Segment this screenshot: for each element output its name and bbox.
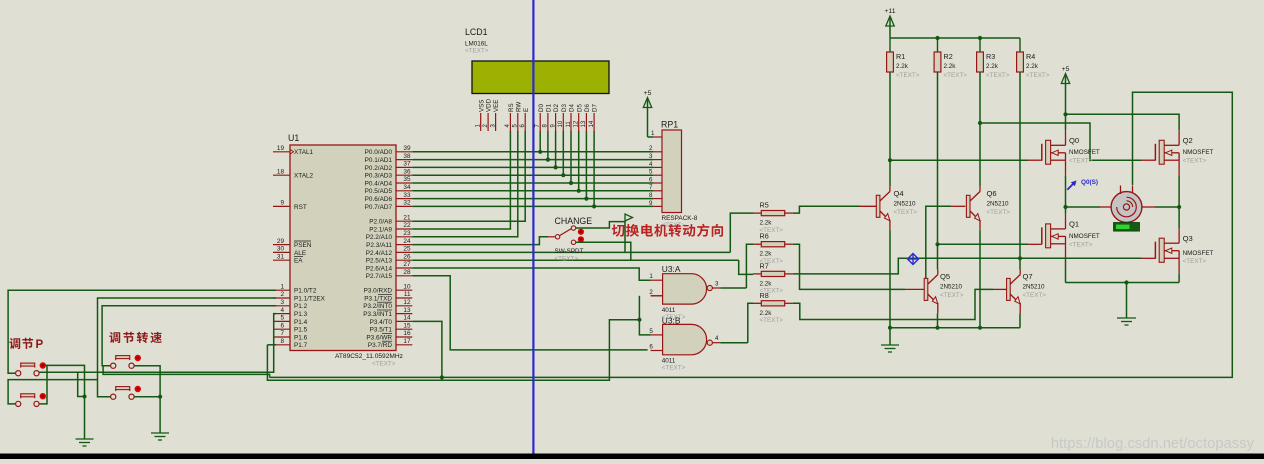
svg-text:<TEXT>: <TEXT> xyxy=(555,255,579,262)
junction D3/P0.3 xyxy=(561,173,565,177)
U1 pin 38 P0.1/AD1 xyxy=(365,153,413,164)
svg-text:P0.3/AD3: P0.3/AD3 xyxy=(365,173,393,180)
wire switch bottom throw to P2.5 net xyxy=(576,242,631,260)
rp1 pin 9 stub xyxy=(649,200,662,207)
junction D7/P0.7 xyxy=(592,204,596,208)
lcd pin 2 VDD xyxy=(483,98,493,131)
U1 pin 25 P2.4/A12 xyxy=(366,246,413,257)
svg-text:8: 8 xyxy=(280,338,284,345)
rp1 pin 1 stub xyxy=(651,130,662,137)
svg-text:30: 30 xyxy=(277,246,285,253)
wire P0.7 bus line to RP1 pin 9 xyxy=(412,205,653,207)
wire U3:B output to R8 left xyxy=(748,303,753,342)
svg-text:NMOSFET: NMOSFET xyxy=(1183,250,1214,257)
svg-text:ALE: ALE xyxy=(294,250,306,257)
U1 pin 1 P1.0/T2 xyxy=(273,283,317,294)
svg-text:SW-SPDT: SW-SPDT xyxy=(555,248,584,255)
svg-text:NMOSFET: NMOSFET xyxy=(1183,149,1214,156)
wire P1.7 stub link xyxy=(267,344,276,346)
U1 pin 8 P1.7 xyxy=(273,338,308,349)
svg-text:2.2k: 2.2k xyxy=(760,251,773,258)
wire motor right terminal xyxy=(1142,206,1155,208)
lcd pin 9 D2 xyxy=(550,104,560,131)
rp1 pin 2 stub xyxy=(649,145,662,152)
svg-text:Q0: Q0 xyxy=(1069,136,1079,145)
lcd pin 1 VSS xyxy=(476,100,486,131)
svg-text:P1.5: P1.5 xyxy=(294,327,308,334)
push button SW3 xyxy=(111,355,141,369)
lcd pin 4 RS xyxy=(505,103,515,131)
wire P1.2 riser to button3 left xyxy=(102,306,276,366)
svg-text:Q7: Q7 xyxy=(1023,272,1033,281)
svg-text:1: 1 xyxy=(649,273,653,280)
svg-text:<TEXT>: <TEXT> xyxy=(372,361,396,368)
label adjust-P button group xyxy=(9,338,33,349)
wire P1.1 riser to button4 left xyxy=(98,298,277,397)
svg-text:<TEXT>: <TEXT> xyxy=(1183,258,1207,265)
wire +11 rail to R1-R4 tops xyxy=(890,37,1020,39)
svg-text:1: 1 xyxy=(651,130,655,137)
svg-text:31: 31 xyxy=(277,253,285,260)
svg-text:34: 34 xyxy=(403,184,411,191)
svg-text:P0.0/AD0: P0.0/AD0 xyxy=(365,149,393,156)
svg-text:2N5210: 2N5210 xyxy=(987,200,1010,207)
svg-text:6: 6 xyxy=(280,322,284,329)
transistor Q7 2N5210 xyxy=(1007,269,1047,313)
U1 pin 7 P1.6 xyxy=(273,330,308,341)
svg-text:<TEXT>: <TEXT> xyxy=(1023,292,1047,299)
wire Q5 emitter to ground rail xyxy=(937,313,939,327)
svg-text:P: P xyxy=(36,339,44,351)
wire Q3 source to lower rail xyxy=(1178,274,1180,283)
svg-text:P3.0/RXD: P3.0/RXD xyxy=(364,288,393,295)
junction R1/Q4/Q0-gate xyxy=(888,158,892,162)
wire button4 right contact xyxy=(134,396,160,398)
switch CHANGE SW-SPDT xyxy=(555,216,593,262)
svg-text:RST: RST xyxy=(294,204,307,211)
wire R2 bottom to node xyxy=(937,72,939,269)
svg-text:VSS: VSS xyxy=(478,100,485,112)
svg-text:P1.6: P1.6 xyxy=(294,334,308,341)
svg-text:R2: R2 xyxy=(944,52,953,61)
svg-text:R1: R1 xyxy=(896,52,905,61)
wire switch top throw to P2.4 net xyxy=(576,222,625,253)
svg-text:R4: R4 xyxy=(1026,52,1035,61)
svg-text:13: 13 xyxy=(403,307,411,314)
svg-text:P2.0/A8: P2.0/A8 xyxy=(369,219,392,226)
wire motor feedback tap to P1.2 riser xyxy=(103,366,270,378)
power +11 symbol xyxy=(884,8,895,38)
svg-text:4: 4 xyxy=(280,307,284,314)
ground symbol under driver stage xyxy=(881,328,899,352)
wire button1 right return to ground node xyxy=(78,372,85,396)
wire LCD RS column to P2.1 xyxy=(412,131,510,229)
push button SW2 xyxy=(16,393,46,407)
transistor Q4 2N5210 xyxy=(876,186,917,230)
resistor R2 2.2k xyxy=(934,38,967,79)
svg-text:2N5210: 2N5210 xyxy=(894,200,917,207)
svg-text:9: 9 xyxy=(649,200,653,207)
wire Q1 gate drive xyxy=(938,243,1029,245)
svg-text:D4: D4 xyxy=(569,104,576,112)
wire R1 bottom to Q4 collector / Q0 gate node xyxy=(889,72,891,186)
wire R4 bottom to Q7 collector / Q3 gate node xyxy=(1019,72,1021,269)
wire LCD D3 column to P0.3 bus xyxy=(562,131,564,175)
wire Q6 base stub xyxy=(951,205,965,207)
svg-text:LM016L: LM016L xyxy=(465,41,488,48)
svg-text:4011: 4011 xyxy=(662,358,676,365)
U1 pin 9 RST xyxy=(273,200,307,211)
svg-text:24: 24 xyxy=(403,238,411,245)
U1 pin 27 P2.6/A14 xyxy=(366,261,413,272)
svg-text:D5: D5 xyxy=(576,104,583,112)
wire left bridge rail Q0 source to Q1 drain xyxy=(1065,176,1067,214)
wire P0.0 bus line to RP1 pin 2 xyxy=(412,151,653,153)
lcd pin 8 D1 xyxy=(543,104,553,131)
U1 pin 29 PSEN xyxy=(273,238,312,249)
svg-text:12: 12 xyxy=(574,120,580,127)
wire Q0 gate drive xyxy=(890,159,1028,161)
svg-text:NMOSFET: NMOSFET xyxy=(1069,149,1100,156)
svg-text:R8: R8 xyxy=(760,291,769,300)
U1 pin 21 P2.0/A8 xyxy=(369,214,412,225)
svg-text:39: 39 xyxy=(403,145,411,152)
junction D4/P0.4 xyxy=(569,181,573,185)
bottom window bar xyxy=(0,454,1264,460)
svg-text:6: 6 xyxy=(649,176,653,183)
junction right rail / motor right xyxy=(1177,205,1181,209)
wire P1.7 to U3 inputs 2 and 5 xyxy=(267,320,639,381)
svg-text:4: 4 xyxy=(649,161,653,168)
blue origin marker xyxy=(908,254,919,265)
wire R5 right to Q4 base xyxy=(793,206,860,213)
wire button1 knob to ground riser xyxy=(46,365,85,439)
svg-text:<TEXT>: <TEXT> xyxy=(986,72,1010,79)
svg-text:<TEXT>: <TEXT> xyxy=(760,317,784,324)
svg-text:D3: D3 xyxy=(561,104,568,112)
wire right bridge rail Q2 source to Q3 drain xyxy=(1178,176,1180,228)
mcu U1 AT89C52 body xyxy=(288,133,403,368)
wire Q7 base stub xyxy=(993,288,1007,290)
wire button3 right to ground riser xyxy=(134,366,160,433)
U1 pin 37 P0.2/AD2 xyxy=(365,161,413,172)
svg-text:RW: RW xyxy=(515,102,522,112)
svg-text:<TEXT>: <TEXT> xyxy=(1183,158,1207,165)
svg-text:P0.2/AD2: P0.2/AD2 xyxy=(365,165,393,172)
svg-text:Q6: Q6 xyxy=(987,189,997,198)
svg-text:2.2k: 2.2k xyxy=(760,310,773,317)
svg-text:LCD1: LCD1 xyxy=(465,27,488,37)
resistor R3 2.2k xyxy=(977,38,1010,79)
resistor R8 2.2k xyxy=(753,291,793,324)
ground symbol under motor bridge xyxy=(1117,283,1136,326)
svg-text:<TEXT>: <TEXT> xyxy=(1069,242,1093,249)
svg-text:<TEXT>: <TEXT> xyxy=(465,48,489,55)
svg-text:+11: +11 xyxy=(884,8,895,15)
svg-text:P2.6/A14: P2.6/A14 xyxy=(366,265,393,272)
svg-text:P1.1/T2EX: P1.1/T2EX xyxy=(294,295,326,302)
U1 pin 11 P3.1/TXD xyxy=(364,291,412,302)
svg-text:2.2k: 2.2k xyxy=(986,63,999,70)
U1 pin 5 P1.4 xyxy=(273,315,308,326)
svg-text:14: 14 xyxy=(589,120,595,127)
svg-text:CHANGE: CHANGE xyxy=(555,216,593,226)
svg-text:Q1: Q1 xyxy=(1069,220,1079,229)
svg-text:2: 2 xyxy=(649,289,653,296)
junction +11 rail / R2 xyxy=(935,36,939,40)
svg-text:R3: R3 xyxy=(986,52,995,61)
U1 pin 35 P0.4/AD4 xyxy=(365,176,413,187)
wire P2.7 to U3:B input 6 xyxy=(412,276,647,350)
svg-text:XTAL1: XTAL1 xyxy=(294,149,314,156)
U1 pin 10 P3.0/RXD xyxy=(364,283,413,294)
svg-text:P1.3: P1.3 xyxy=(294,311,308,318)
svg-text:17: 17 xyxy=(403,338,411,345)
lcd pin 13 D6 xyxy=(581,104,591,131)
svg-text:25: 25 xyxy=(403,246,411,253)
svg-text:P3.7/RD: P3.7/RD xyxy=(368,342,393,349)
svg-text:P3.4/T0: P3.4/T0 xyxy=(370,319,393,326)
U1 pin 19 XTAL1 xyxy=(273,145,314,156)
svg-text:VEE: VEE xyxy=(493,100,500,112)
svg-text:P0.5/AD5: P0.5/AD5 xyxy=(365,188,393,195)
wire R6 right to Q5 base xyxy=(793,244,905,289)
svg-text:2.2k: 2.2k xyxy=(1026,63,1039,70)
svg-text:13: 13 xyxy=(581,120,587,127)
wire Q7 emitter to ground rail corner xyxy=(1019,313,1021,327)
rp1 pin 6 stub xyxy=(649,176,662,183)
svg-text:P0.7/AD7: P0.7/AD7 xyxy=(365,204,393,211)
rp1 pin 8 stub xyxy=(649,192,662,199)
svg-text:PSEN: PSEN xyxy=(294,242,312,249)
svg-text:3: 3 xyxy=(715,281,719,288)
wire Q1 source to lower rail xyxy=(1065,259,1067,282)
lcd pin 10 D3 xyxy=(558,104,568,131)
wire P0.5 bus line to RP1 pin 7 xyxy=(412,190,653,192)
svg-text:2N5210: 2N5210 xyxy=(940,283,963,290)
svg-text:6: 6 xyxy=(649,344,653,351)
wire P0.3 bus line to RP1 pin 5 xyxy=(412,174,653,176)
svg-text:32: 32 xyxy=(403,200,411,207)
svg-text:5: 5 xyxy=(280,315,284,322)
junction +5 rail / Q0 drain xyxy=(1063,112,1067,116)
svg-text:3: 3 xyxy=(649,153,653,160)
wire LCD D1 column to P0.1 bus xyxy=(547,131,549,160)
svg-text:D0: D0 xyxy=(538,104,545,112)
svg-text:14: 14 xyxy=(403,315,411,322)
svg-text:P2.7/A15: P2.7/A15 xyxy=(366,273,393,280)
resistor R5 2.2k xyxy=(753,201,793,234)
power +5 symbol right xyxy=(1061,66,1069,114)
wire Q6 base from Q5 base tie xyxy=(926,206,951,278)
lcd pin 3 VEE xyxy=(490,100,500,131)
wire U3:A output to R6 left xyxy=(746,244,753,288)
svg-text:23: 23 xyxy=(403,230,411,237)
transistor Q6 2N5210 xyxy=(966,186,1010,230)
wire button2 left loop to P1.1 riser xyxy=(8,380,97,404)
wire P1.3 bracket to button net xyxy=(39,314,276,373)
svg-text:P0.4/AD4: P0.4/AD4 xyxy=(365,180,393,187)
rp1 pin 3 stub xyxy=(649,153,662,160)
transistor Q5 2N5210 xyxy=(924,269,964,313)
U1 pin 4 P1.3 xyxy=(273,307,308,318)
junction D2/P0.2 xyxy=(554,165,558,169)
svg-text:2: 2 xyxy=(280,291,284,298)
wire Q5 base stub xyxy=(905,288,924,290)
wire P3.4/T0 riser to feedback line xyxy=(412,321,442,377)
wire motor tach feedback loop to P3.4/T0 xyxy=(270,92,1233,377)
U1 pin 26 P2.5/A13 xyxy=(366,253,413,264)
svg-text:AT89C52_11.0592MHz: AT89C52_11.0592MHz xyxy=(335,353,403,360)
transistor Q2 NMOSFET xyxy=(1155,130,1213,176)
svg-text:<TEXT>: <TEXT> xyxy=(894,209,918,216)
wire P0.6 bus line to RP1 pin 8 xyxy=(412,198,653,200)
wire Q6 emitter to ground rail xyxy=(979,230,981,327)
terminal flag marker xyxy=(625,214,633,221)
svg-text:U3:A: U3:A xyxy=(662,264,681,274)
U1 pin 28 P2.7/A15 xyxy=(366,269,413,280)
svg-text:+5: +5 xyxy=(1062,66,1070,73)
svg-text:Q5: Q5 xyxy=(940,272,950,281)
U1 pin 3 P1.2 xyxy=(273,299,308,310)
svg-text:https://blog.csdn.net/octopass: https://blog.csdn.net/octopassy xyxy=(1051,436,1255,452)
svg-text:RS: RS xyxy=(508,103,515,112)
blue voltage probe Q0(S) xyxy=(1067,179,1098,190)
U1 pin 39 P0.0/AD0 xyxy=(365,145,413,156)
svg-text:7: 7 xyxy=(649,184,653,191)
nand gate U3:A 4011 xyxy=(649,264,720,321)
wire button2 right contact up to knob net xyxy=(39,365,47,404)
svg-text:P1.2: P1.2 xyxy=(294,303,308,310)
wire U3:A output to R6 riser xyxy=(720,287,746,289)
svg-text:R5: R5 xyxy=(760,201,769,210)
svg-text:22: 22 xyxy=(403,222,411,229)
junction rail/Q6 emitter xyxy=(978,326,982,330)
push button SW1 xyxy=(16,362,46,376)
svg-text:P0.1/AD1: P0.1/AD1 xyxy=(365,157,393,164)
svg-text:27: 27 xyxy=(403,261,411,268)
svg-text:D6: D6 xyxy=(584,104,591,112)
blue fold line xyxy=(532,0,534,454)
rp1 pin 5 stub xyxy=(649,169,662,176)
svg-text:P1.4: P1.4 xyxy=(294,319,308,326)
xtal1 clock marker xyxy=(290,149,294,154)
rp1 pin 4 stub xyxy=(649,161,662,168)
svg-text:4011: 4011 xyxy=(662,307,676,314)
svg-text:7: 7 xyxy=(280,330,284,337)
wire P0.1 bus line to RP1 pin 3 xyxy=(412,159,653,161)
wire Q4 base stub xyxy=(860,205,876,207)
wire +5 drain rail xyxy=(1066,114,1180,130)
svg-text:P3.6/WR: P3.6/WR xyxy=(366,334,392,341)
ground symbol left buttons xyxy=(76,439,94,446)
svg-text:Q0(S): Q0(S) xyxy=(1081,179,1098,186)
svg-text:P2.4/A12: P2.4/A12 xyxy=(366,250,393,257)
svg-text:P2.2/A10: P2.2/A10 xyxy=(366,234,393,241)
svg-text:P0.6/AD6: P0.6/AD6 xyxy=(365,196,393,203)
svg-text:21: 21 xyxy=(403,214,411,221)
resistor R4 2.2k xyxy=(1017,38,1050,79)
svg-text:1: 1 xyxy=(280,283,284,290)
label adjust-speed button group xyxy=(109,332,161,343)
U1 pin 18 XTAL2 xyxy=(273,168,314,179)
svg-text:33: 33 xyxy=(403,192,411,199)
wire LCD D5 column to P0.5 bus xyxy=(578,131,580,191)
svg-text:36: 36 xyxy=(403,168,411,175)
svg-text:VDD: VDD xyxy=(486,98,493,112)
junction rail/Q5 emitter xyxy=(935,326,939,330)
wire motor left terminal xyxy=(1066,206,1101,208)
wire P2.4 net to R5 left xyxy=(730,213,753,252)
svg-text:RESPACK-8: RESPACK-8 xyxy=(662,215,698,222)
wire lower bridge rail xyxy=(1066,282,1180,284)
wire R3 bottom to Q6 collector node xyxy=(979,72,981,186)
ground symbol speed buttons xyxy=(151,433,169,440)
svg-text:Q2: Q2 xyxy=(1183,136,1193,145)
lcd pin 5 RW xyxy=(513,102,523,131)
svg-text:9: 9 xyxy=(280,200,284,207)
wire LCD D2 column to P0.2 bus xyxy=(555,131,557,167)
wire P2.3 to switch pole xyxy=(412,237,548,245)
U1 pin 6 P1.5 xyxy=(273,322,308,333)
svg-text:<TEXT>: <TEXT> xyxy=(896,72,920,79)
wire LCD D0 column to P0.0 bus xyxy=(539,131,541,152)
svg-text:D7: D7 xyxy=(592,104,599,112)
svg-text:2.2k: 2.2k xyxy=(896,63,909,70)
svg-text:2.2k: 2.2k xyxy=(760,220,773,227)
power +5 symbol at RP1 xyxy=(643,90,653,137)
resistor R1 2.2k xyxy=(887,38,920,79)
junction button4 right / ground riser xyxy=(158,395,162,399)
svg-text:8: 8 xyxy=(649,192,653,199)
svg-text:3: 3 xyxy=(280,299,284,306)
svg-text:+5: +5 xyxy=(644,90,652,97)
U1 pin 14 P3.4/T0 xyxy=(370,315,413,326)
svg-text:11: 11 xyxy=(566,121,572,128)
U1 pin 24 P2.3/A11 xyxy=(366,238,412,249)
junction D1/P0.1 xyxy=(546,158,550,162)
svg-text:2.2k: 2.2k xyxy=(760,280,773,287)
junction U3 input riser xyxy=(637,318,641,322)
svg-text:P3.2/INT0: P3.2/INT0 xyxy=(363,303,392,310)
U1 pin 23 P2.2/A10 xyxy=(366,230,413,241)
svg-text:P1.0/T2: P1.0/T2 xyxy=(294,288,317,295)
svg-text:10: 10 xyxy=(558,120,564,127)
svg-text:R7: R7 xyxy=(760,261,769,270)
svg-text:5: 5 xyxy=(649,169,653,176)
U1 pin 13 P3.3/INT1 xyxy=(363,307,412,318)
wire P2.6 to U3:A input 1 xyxy=(412,268,650,280)
svg-text:37: 37 xyxy=(403,161,411,168)
svg-text:5: 5 xyxy=(649,328,653,335)
wire ground rail under driver transistors xyxy=(890,327,1020,329)
wire Q2 gate drive via right jog xyxy=(980,123,1141,160)
label motor direction note xyxy=(612,224,723,237)
svg-text:<TEXT>: <TEXT> xyxy=(944,72,968,79)
resistor R7 2.2k xyxy=(753,261,793,294)
lcd pin 7 D0 xyxy=(535,104,545,131)
respack RP1 RESPACK-8 body xyxy=(661,120,698,230)
U1 pin 31 EA xyxy=(273,253,303,264)
wire U3:B output to R8 riser xyxy=(720,342,748,344)
junction ground riser / button right returns xyxy=(82,394,86,398)
transistor Q0 NMOSFET xyxy=(1042,130,1100,176)
wire LCD D4 column to P0.4 bus xyxy=(570,131,572,183)
junction R2/Q5-collector/Q1-gate xyxy=(935,242,939,246)
U1 pin 15 P3.5/T1 xyxy=(370,322,413,333)
wire R8 right to Q7 base xyxy=(793,289,993,319)
junction R3/Q6/Q2-gate xyxy=(978,121,982,125)
